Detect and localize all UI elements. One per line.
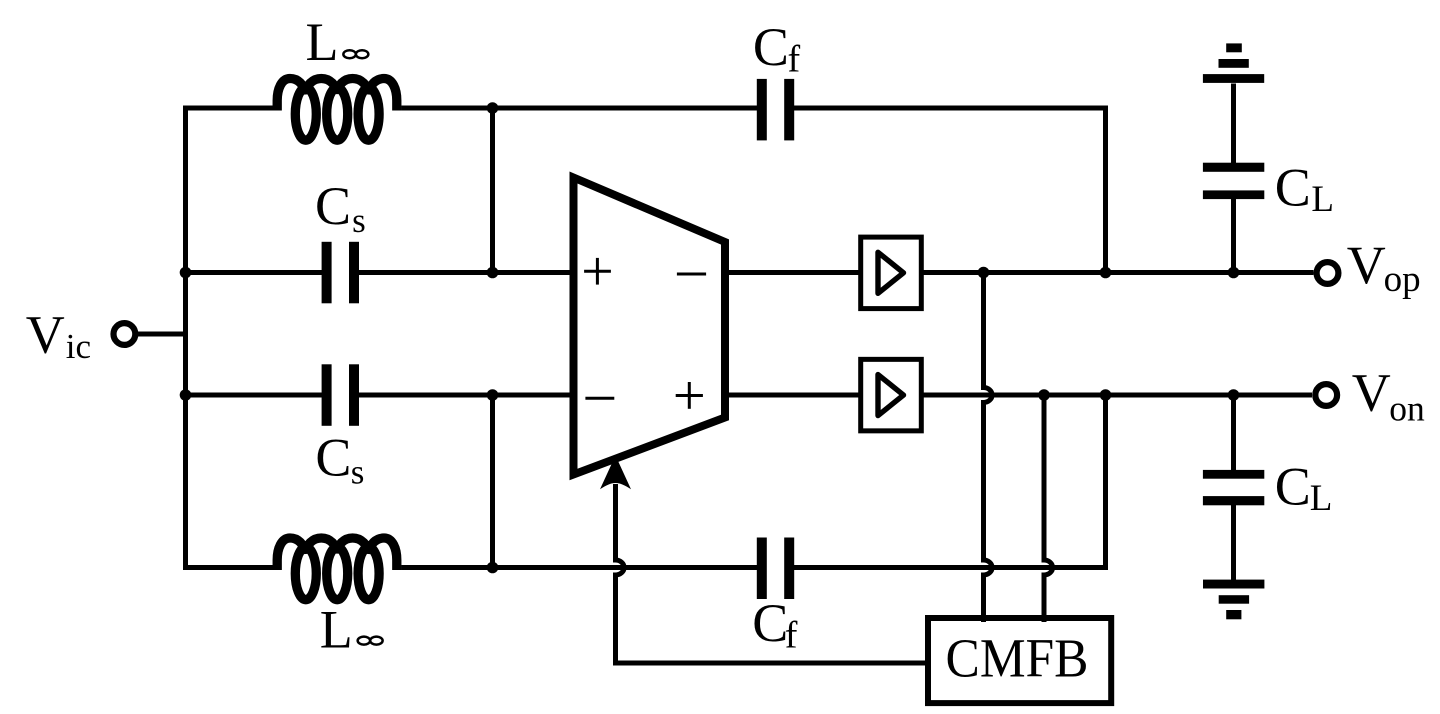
junction dot at (185.5,395) <box>180 389 192 401</box>
svg-text:C: C <box>753 17 789 77</box>
label Cs bottom <box>315 427 364 491</box>
terminal Vic <box>114 323 136 345</box>
label Vic <box>26 305 91 366</box>
label CL bottom <box>1275 456 1333 519</box>
junction dot at (492.5,567.5) <box>487 562 499 574</box>
wire: CL top to Vop line <box>1231 193 1236 273</box>
wire: CL bottom to ground <box>1231 500 1236 584</box>
wire: bottom line from inductor to Cf bottom <box>401 565 761 570</box>
op-amp control arrowhead <box>600 456 631 490</box>
svg-text:op: op <box>1384 259 1421 300</box>
capacitor Cs (top) <box>322 242 359 303</box>
wire: junction vertical lower (x=492.5) <box>490 395 495 568</box>
capacitor CL (bottom) <box>1203 470 1264 505</box>
label Linf top <box>306 12 339 72</box>
terminal Vop <box>1317 262 1339 284</box>
capacitor Cf (bottom) <box>757 538 794 600</box>
inductor L2 (bottom Linf) <box>277 538 397 600</box>
svg-text:C: C <box>1275 157 1311 217</box>
buffer A1 (top) <box>861 237 922 309</box>
wire: top line from inductor to Cf <box>401 106 758 111</box>
junction dot at (1105.5,272.5) <box>1100 267 1112 279</box>
wire: lower Cs line left <box>186 393 328 398</box>
svg-text:C: C <box>315 176 351 236</box>
svg-text:on: on <box>1389 389 1425 429</box>
label Cf bottom <box>752 593 798 656</box>
buffer A2 (bottom) <box>861 359 922 431</box>
svg-text:L: L <box>320 600 353 660</box>
svg-text:f: f <box>785 614 798 656</box>
junction dot at (1233.5,395) <box>1228 389 1240 401</box>
label Cs top <box>315 176 366 240</box>
capacitor CL (top) <box>1203 163 1264 199</box>
wire: Cf bottom to Von line <box>790 395 1106 568</box>
junction dot at (492.5,395) <box>487 389 499 401</box>
capacitor Cs (bottom) <box>322 364 359 426</box>
wire: Cf top to Vop line <box>793 108 1106 273</box>
ground symbol (bottom right) <box>1203 580 1264 620</box>
terminal Von <box>1315 384 1337 406</box>
junction dot at (1233.5,272.5) <box>1228 267 1240 279</box>
svg-text:f: f <box>788 39 801 81</box>
wire: Vic lead <box>136 332 186 337</box>
label Vop <box>1347 235 1421 300</box>
wire: upper Cs line right to op-amp <box>354 270 574 275</box>
op-amp U1 minus sign (in-, bottom-left) <box>585 397 614 400</box>
svg-text:C: C <box>315 427 351 487</box>
op-amp U1 plus sign (out+, bottom-right) <box>676 382 703 409</box>
inductor L1 (top Linf) <box>277 78 397 140</box>
wire: upper Cs line left <box>186 270 328 275</box>
svg-text:C: C <box>752 593 788 653</box>
label CL top <box>1275 157 1334 220</box>
CMFB block <box>928 618 1111 703</box>
label Von <box>1352 363 1425 429</box>
wire: Von sense down to CMFB (x=1044, hop over Cf line) <box>1044 395 1053 622</box>
wire: input bus vertical with top/bottom corners <box>186 108 274 568</box>
svg-text:L: L <box>1310 478 1333 519</box>
supply symbol (top rail, above CL top) <box>1203 43 1264 83</box>
wire: buffer A1 output to Vop terminal <box>924 270 1314 275</box>
svg-text:V: V <box>26 305 65 365</box>
svg-text:s: s <box>352 201 366 240</box>
svg-text:C: C <box>1275 456 1311 516</box>
wire: Vop sense down to CMFB (x=983.5, hops over Von and Cf lines) <box>984 273 993 623</box>
op-amp U1 (trapezoid) <box>574 178 726 475</box>
label Linf bottom <box>320 600 353 660</box>
wire: CMFB output to op-amp control arrow (hop over Cf line) <box>616 484 930 663</box>
wire: lower Cs line right to op-amp <box>354 393 574 398</box>
op-amp U1 minus sign (out-, top-right) <box>677 273 706 276</box>
svg-text:CMFB: CMFB <box>946 627 1089 688</box>
label CMFB <box>946 627 1089 688</box>
wire: Von line to CL bottom <box>1231 395 1236 474</box>
op-amp U1 plus sign (in+, top-left) <box>584 258 611 285</box>
svg-text:V: V <box>1352 363 1391 423</box>
wire: buffer A2 output to Von terminal <box>924 393 1313 398</box>
svg-text:V: V <box>1347 235 1386 295</box>
svg-text:L: L <box>1311 179 1334 220</box>
junction dot at (492.5,272.5) <box>487 267 499 279</box>
junction dot at (983.5,272.5) <box>978 267 990 279</box>
svg-text:s: s <box>351 452 365 491</box>
capacitor Cf (top) <box>757 79 794 140</box>
wire: op-amp out+ to buffer A2 <box>725 393 859 398</box>
svg-text:L: L <box>306 12 339 72</box>
svg-text:ic: ic <box>66 327 91 366</box>
wire: junction vertical upper (x=492.5) <box>490 108 495 273</box>
junction dot at (1044,395) <box>1038 389 1050 401</box>
wire: supply to CL top <box>1231 84 1236 169</box>
junction dot at (1105.5,395) <box>1100 389 1112 401</box>
wire: op-amp out- to buffer A1 <box>725 270 859 275</box>
label Cf top <box>753 17 801 81</box>
junction dot at (185.5,272.5) <box>180 267 192 279</box>
junction dot top line at x=492.5 <box>487 102 499 114</box>
